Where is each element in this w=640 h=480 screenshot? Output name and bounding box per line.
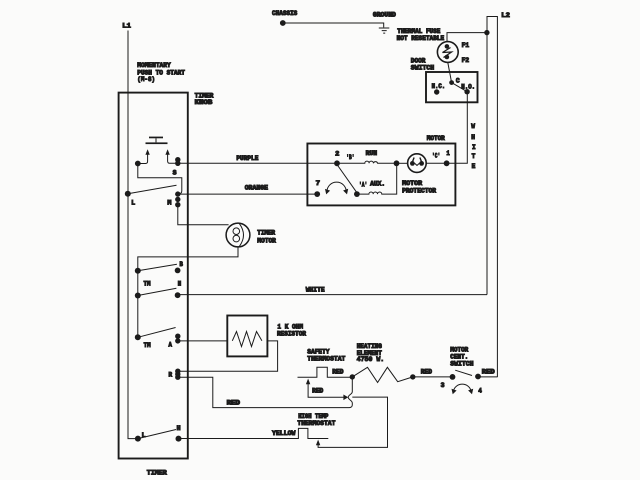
node heating element left junction: [350, 374, 355, 379]
net L1: [122, 23, 131, 30]
svg-text:MOTOR: MOTOR: [402, 180, 422, 187]
node motor winding junction: [394, 160, 400, 166]
svg-text:7: 7: [316, 180, 321, 187]
svg-text:CHASSIS: CHASSIS: [272, 10, 298, 17]
svg-text:RED: RED: [227, 399, 241, 406]
wire timer motor to TM contacts: [138, 247, 238, 271]
svg-text:S: S: [173, 169, 177, 176]
switch TM-N: [135, 281, 182, 299]
svg-text:GROUND: GROUND: [373, 12, 396, 19]
svg-text:SWITCH: SWITCH: [450, 360, 474, 367]
svg-text:L2: L2: [501, 12, 510, 19]
thermostat high temp: [297, 413, 335, 427]
svg-text:F1: F1: [462, 42, 470, 49]
svg-text:TIMER: TIMER: [147, 470, 167, 477]
wire yellow H to high temp thermostat: [179, 428, 329, 438]
wire red cent switch 4 to L2: [478, 368, 497, 377]
wire TM vertical link: [137, 271, 139, 338]
svg-text:WHITE: WHITE: [306, 286, 325, 293]
svg-text:TIMER: TIMER: [257, 229, 275, 236]
svg-text:L: L: [131, 200, 135, 207]
svg-text:'A': 'A': [359, 182, 367, 189]
wire L2 bus: [487, 17, 497, 378]
svg-text:W: W: [471, 123, 475, 130]
svg-text:TM: TM: [144, 280, 151, 287]
svg-text:RED: RED: [312, 388, 324, 395]
svg-text:THERMOSTAT: THERMOSTAT: [307, 355, 345, 362]
svg-text:MOTOR: MOTOR: [257, 237, 276, 244]
switch momentary push to start M-8: [137, 62, 185, 164]
node push-start left contact: [135, 161, 182, 194]
svg-text:HEATING: HEATING: [357, 343, 383, 350]
thermostat safety: [298, 348, 353, 377]
wire M to timer motor: [178, 205, 229, 225]
svg-text:THERMAL FUSE: THERMAL FUSE: [397, 28, 440, 35]
svg-text:RED: RED: [482, 368, 495, 375]
switch centrifugal arc 7-A: [325, 182, 348, 194]
svg-text:TM: TM: [144, 342, 151, 349]
svg-text:AUX.: AUX.: [370, 180, 385, 187]
wire orange M to motor 7: [178, 185, 317, 195]
switch TM-A: [135, 328, 181, 350]
heating element 4750 W: [352, 343, 415, 382]
wire red safety thermostat branch with arrows: [306, 379, 348, 401]
wire A to resistor: [178, 340, 228, 342]
ground: [373, 12, 396, 33]
motor box: [307, 135, 455, 206]
svg-text:SWITCH: SWITCH: [411, 65, 435, 72]
svg-text:THERMOSTAT: THERMOSTAT: [297, 420, 335, 427]
svg-text:MOTOR: MOTOR: [427, 135, 445, 142]
svg-text:E: E: [472, 163, 476, 170]
svg-text:MOMENTARY: MOMENTARY: [137, 62, 171, 69]
svg-text:(M-8): (M-8): [137, 76, 155, 83]
svg-text:I: I: [472, 144, 476, 151]
motor protector: [397, 154, 447, 195]
wire resistor to R terminal: [178, 341, 278, 371]
wire purple S to motor 2: [178, 155, 337, 163]
svg-text:RESISTOR: RESISTOR: [277, 331, 306, 338]
svg-text:1: 1: [446, 150, 450, 157]
thermal fuse F1-F2: [397, 28, 487, 64]
wire branch to high temp thermostat with arrows: [316, 397, 388, 447]
node R terminal: [169, 369, 181, 380]
wire chassis to ground: [283, 23, 384, 27]
svg-text:RED: RED: [332, 368, 344, 375]
switch L-M timer: [125, 185, 181, 207]
svg-text:DOOR: DOOR: [411, 57, 426, 64]
svg-text:KNOB: KNOB: [195, 99, 213, 106]
wire red heating element to cent switch 3: [413, 368, 453, 377]
svg-text:L: L: [142, 432, 146, 439]
node motor terminal 7: [314, 180, 320, 197]
switch TM-B: [135, 261, 183, 287]
node motor terminal 2: [334, 151, 354, 167]
svg-text:1 K OHM: 1 K OHM: [277, 324, 303, 331]
svg-text:NOT RESETABLE: NOT RESETABLE: [397, 35, 445, 42]
inductor run winding: [337, 150, 397, 163]
svg-text:N.C.: N.C.: [432, 83, 446, 90]
svg-text:4: 4: [478, 387, 482, 394]
timer motor: [226, 223, 276, 247]
door switch: [411, 57, 478, 102]
svg-text:SAFETY: SAFETY: [307, 348, 330, 355]
node junction thermal fuse to L2: [484, 30, 489, 35]
svg-text:RED: RED: [421, 368, 433, 375]
svg-text:R: R: [169, 372, 173, 379]
svg-text:F2: F2: [462, 57, 470, 64]
svg-text:H: H: [177, 425, 181, 432]
switch motor start arm 2-A: [337, 165, 367, 198]
svg-text:B: B: [180, 261, 184, 268]
svg-text:L1: L1: [122, 23, 131, 30]
svg-text:M: M: [167, 200, 171, 207]
svg-text:T: T: [472, 153, 476, 160]
svg-text:A: A: [169, 342, 173, 349]
svg-text:H: H: [471, 134, 475, 141]
svg-text:'B': 'B': [346, 154, 354, 161]
switch motor centrifugal 3-4: [441, 347, 483, 395]
wire white N to L2: [178, 286, 487, 294]
node S terminal: [173, 157, 181, 176]
svg-text:C: C: [456, 78, 460, 85]
inductor aux winding: [357, 163, 397, 194]
svg-text:RUN: RUN: [366, 150, 378, 157]
svg-text:YELLOW: YELLOW: [272, 430, 296, 437]
svg-text:MOTOR: MOTOR: [450, 347, 468, 354]
svg-text:'C': 'C': [432, 153, 440, 160]
switch L-H timer: [135, 425, 182, 441]
svg-text:PURPLE: PURPLE: [236, 155, 258, 162]
svg-text:PROTECTOR: PROTECTOR: [402, 187, 436, 194]
svg-text:2: 2: [335, 151, 340, 158]
svg-text:N.O.: N.O.: [461, 84, 475, 91]
svg-text:4750 W.: 4750 W.: [357, 356, 385, 363]
resistor 1 K OHM: [227, 316, 306, 357]
wire white: door switch N.O. to motor 1: [447, 92, 476, 170]
wire L1 vertical: [128, 31, 138, 439]
node motor terminal 1: [432, 150, 450, 166]
svg-text:ORANGE: ORANGE: [245, 185, 269, 192]
timer box: [119, 93, 214, 477]
svg-text:3: 3: [441, 382, 445, 389]
wire red R to heating element junction: [178, 377, 352, 407]
net L2: [501, 12, 510, 19]
node CHASSIS: [272, 10, 298, 26]
svg-text:N: N: [178, 281, 182, 288]
